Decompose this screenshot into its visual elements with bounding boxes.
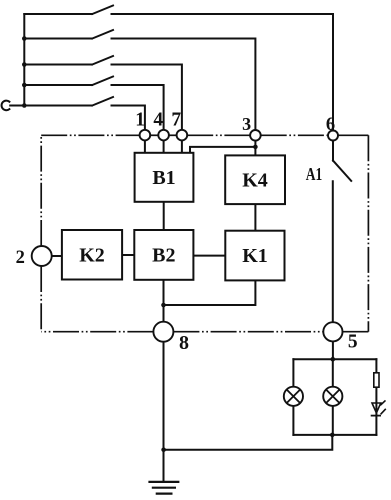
svg-text:K4: K4 [242,169,268,191]
svg-text:8: 8 [179,332,189,354]
svg-text:6: 6 [326,115,335,135]
svg-text:3: 3 [242,114,251,134]
svg-text:5: 5 [348,332,358,353]
svg-text:A1: A1 [306,164,323,184]
svg-text:2: 2 [16,248,25,268]
svg-text:K2: K2 [79,244,105,266]
svg-text:K1: K1 [242,245,268,267]
svg-text:7: 7 [171,109,181,130]
svg-text:4: 4 [153,109,163,130]
svg-text:B2: B2 [152,244,175,266]
svg-text:1: 1 [135,109,145,130]
svg-text:B1: B1 [152,167,175,189]
